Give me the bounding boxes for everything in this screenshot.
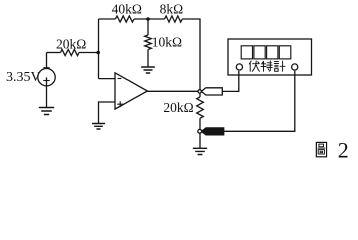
svg-text:8kΩ: 8kΩ bbox=[160, 2, 184, 17]
svg-text:3.35V: 3.35V bbox=[6, 70, 41, 85]
svg-text:20kΩ: 20kΩ bbox=[56, 36, 86, 51]
svg-text:2: 2 bbox=[338, 137, 349, 162]
svg-text:40kΩ: 40kΩ bbox=[112, 2, 142, 17]
svg-text:20kΩ: 20kΩ bbox=[163, 100, 193, 115]
svg-text:10kΩ: 10kΩ bbox=[152, 35, 182, 50]
